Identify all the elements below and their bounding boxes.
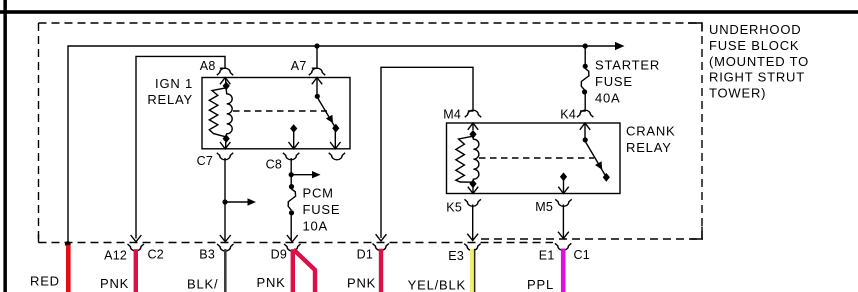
svg-text:CRANK: CRANK [626, 124, 676, 139]
branch wire right from C7 [225, 201, 249, 203]
tick at A7 wire end [312, 67, 318, 69]
open arrow down at E1 border crossing [558, 232, 569, 239]
connector cup E3 [464, 244, 480, 251]
pin stub A7 to pivot [316, 78, 318, 96]
wire: M5 down to E1 [562, 205, 564, 238]
wire: C8 down to fuse [290, 158, 292, 186]
svg-text:PPL: PPL [527, 277, 554, 292]
svg-text:C1: C1 [574, 248, 590, 262]
svg-text:E1: E1 [539, 249, 555, 263]
connector cup D1 [373, 244, 389, 251]
arrowhead at end of top rail [615, 42, 625, 50]
pin stub coil to C7 [225, 142, 227, 149]
svg-text:FUSE BLOCK: FUSE BLOCK [709, 38, 799, 53]
pin stub M4 to coil [472, 123, 474, 130]
tick at M4 wire end [468, 110, 474, 112]
wire BLK below B3 [224, 249, 227, 292]
wire: rail tap down to A7 [316, 46, 318, 68]
svg-text:D1: D1 [357, 248, 373, 262]
relay coil zigzag (crank) [456, 136, 473, 182]
svg-text:FUSE: FUSE [595, 74, 633, 89]
svg-text:C7: C7 [197, 154, 213, 168]
blade arrowhead (IGN 1) [326, 115, 333, 124]
wire: starter fuse down to K4 [584, 92, 586, 111]
svg-text:PNK: PNK [257, 275, 286, 290]
blade end diamond (crank) [603, 173, 610, 182]
wire YEL/BLK black stripe [474, 249, 476, 292]
branch wire right from C8 [291, 174, 313, 176]
pin stub NO contact down to C8 [293, 131, 295, 149]
wire: C7 down to B3 [224, 158, 226, 241]
switch pivot dot (crank) [583, 137, 588, 142]
svg-text:K5: K5 [446, 201, 462, 215]
relay coil arcs (IGN 1) [226, 89, 232, 135]
wire PPL below E1 [561, 249, 566, 292]
svg-text:RELAY: RELAY [626, 140, 672, 155]
svg-text:TOWER): TOWER) [709, 86, 766, 101]
terminal cup K4 [577, 110, 593, 117]
pin stub K4 to pivot [584, 123, 586, 139]
coil-switch dashed link (IGN 1) [233, 110, 327, 112]
wire PNK below A12 [134, 249, 138, 292]
connector cup B3 [217, 244, 233, 251]
connector cup C7 [217, 153, 233, 160]
NO contact diamond (to C8) [290, 124, 297, 133]
pin arrow down at M5 [558, 187, 568, 194]
PCM fuse top dot [289, 184, 294, 189]
starter fuse top dot [583, 64, 588, 69]
CRANK relay box U2 [447, 123, 621, 194]
wire: fuse down to D9 [290, 213, 292, 241]
switch blade (IGN 1) [318, 98, 337, 130]
open arrow down at D1 border crossing [376, 234, 387, 241]
page frame left bar [3, 0, 7, 292]
IGN 1 relay box U1 [202, 78, 350, 149]
connector cup K5 [465, 199, 481, 206]
connector cup E1 [555, 243, 571, 250]
wire: A12 to A8 feed [136, 56, 225, 238]
coil bottom diamond (IGN 1) [223, 134, 230, 143]
coil-switch dashed link (crank) [479, 157, 594, 159]
page frame top bar [0, 10, 858, 14]
svg-text:C8: C8 [266, 158, 282, 172]
connector cup A12 [128, 244, 144, 251]
dashed border corner stub bottom-left [38, 235, 40, 243]
svg-text:40A: 40A [595, 91, 621, 106]
junction dot on C8 wire [289, 172, 294, 177]
wire: D1 riser to M4 [381, 67, 473, 238]
svg-text:RELAY: RELAY [147, 92, 193, 107]
dashed border corner stub bottom-right [691, 227, 703, 240]
wire: K5 down to E3 [472, 205, 474, 240]
pin arrow up at K4 into relay [580, 123, 590, 130]
wire PNK below D1 [379, 249, 383, 292]
pin arrow up at A7 into relay [312, 78, 322, 85]
pin arrow down at unused terminal [330, 142, 340, 149]
pin stub A8 to coil [225, 78, 227, 84]
tick at K4 wire end [580, 110, 586, 112]
svg-text:PCM: PCM [303, 186, 334, 201]
wire: rail tap down to starter fuse [584, 46, 586, 66]
tick at A8 wire end [220, 67, 226, 69]
switch blade (crank) [585, 142, 606, 178]
coil bottom diamond (crank) [469, 179, 476, 188]
coil top diamond (crank) [469, 130, 476, 139]
PCM fuse bottom dot [289, 210, 294, 215]
svg-text:UNDERHOOD: UNDERHOOD [709, 22, 801, 37]
svg-text:K4: K4 [560, 108, 576, 122]
dashed border corner stub top-right [688, 23, 702, 32]
svg-text:PNK: PNK [347, 276, 376, 291]
svg-text:A7: A7 [291, 59, 307, 73]
connector cup M5 [555, 199, 571, 206]
blade end diamond / NC contact (IGN 1) [332, 124, 339, 133]
PCM fuse element [288, 189, 295, 210]
open arrow down at D9 border crossing [287, 235, 298, 242]
junction dot at starter fuse tap [583, 43, 588, 48]
svg-text:STARTER: STARTER [595, 58, 660, 73]
svg-text:(MOUNTED TO: (MOUNTED TO [709, 54, 809, 69]
connector cup C8 [283, 153, 299, 160]
blade arrowhead (crank) [595, 161, 602, 170]
svg-text:BLK/: BLK/ [187, 277, 218, 292]
starter fuse bottom dot [582, 89, 587, 94]
connector cup D9 [284, 244, 300, 251]
svg-text:M4: M4 [443, 108, 461, 122]
open arrow down at A12 border crossing [131, 235, 142, 242]
fuse block dashed border left [38, 23, 40, 243]
relay coil arcs (crank) [473, 138, 479, 181]
pin arrow down at C7 [220, 142, 230, 149]
NO contact diamond M5 [560, 172, 567, 181]
wire YEL below E3 [470, 249, 474, 292]
pin arrow down at C8 [289, 142, 299, 149]
svg-text:B3: B3 [199, 248, 215, 262]
svg-text:RED: RED [30, 274, 60, 289]
terminal cup A7 [309, 68, 325, 75]
pin stub M5 contact down [563, 179, 565, 194]
connector cup unused terminal [329, 153, 345, 160]
junction dot on C7 wire [222, 199, 227, 204]
open arrow down at B3 border crossing [220, 235, 231, 242]
wire: battery feed rail (RED) left riser and top run [68, 46, 616, 243]
svg-text:E3: E3 [448, 249, 464, 263]
svg-text:A12: A12 [104, 249, 127, 263]
svg-text:C2: C2 [148, 248, 164, 262]
pin stub coil to K5 [472, 187, 474, 194]
fuse block dashed border right [701, 23, 703, 239]
branch arrowhead (C7) [248, 198, 257, 205]
terminal cup M4 [465, 110, 481, 117]
svg-text:FUSE: FUSE [303, 202, 341, 217]
svg-text:PNK: PNK [100, 276, 129, 291]
wire PNK below D9 straight strand [291, 249, 295, 292]
svg-text:A8: A8 [200, 59, 216, 73]
fuse block dashed border bottom-left segment [39, 242, 554, 244]
fuse block dashed border top [39, 22, 703, 24]
wire: RED wire below fuse block [66, 245, 71, 292]
coil top diamond (IGN 1) [223, 82, 230, 91]
switch pivot dot (IGN 1) [315, 94, 320, 99]
fuse block dashed border bottom-right segment [481, 238, 703, 240]
svg-text:IGN 1: IGN 1 [155, 76, 193, 91]
svg-text:D9: D9 [271, 248, 287, 262]
svg-text:YEL/BLK: YEL/BLK [408, 278, 466, 292]
junction dot at RED wire on border [65, 241, 71, 247]
pin arrow up at A8 into relay [220, 78, 230, 85]
open arrow down at E3 border crossing [467, 234, 478, 241]
svg-text:RIGHT STRUT: RIGHT STRUT [709, 70, 805, 85]
terminal cup A8 [217, 68, 233, 75]
pin stub NC contact down [334, 131, 336, 149]
starter fuse element [581, 68, 589, 89]
branch arrowhead (C8) [312, 171, 321, 178]
junction dot at A7 tap [314, 43, 319, 48]
pin arrow down at K5 [468, 187, 478, 194]
relay coil zigzag (IGN 1) [209, 88, 226, 137]
pin arrow up at M4 into relay [468, 123, 478, 130]
svg-text:M5: M5 [535, 200, 553, 214]
label UNDERHOOD FUSE BLOCK [709, 22, 809, 101]
svg-text:10A: 10A [303, 219, 329, 234]
wire PNK below D9 diagonal strand [294, 250, 316, 292]
